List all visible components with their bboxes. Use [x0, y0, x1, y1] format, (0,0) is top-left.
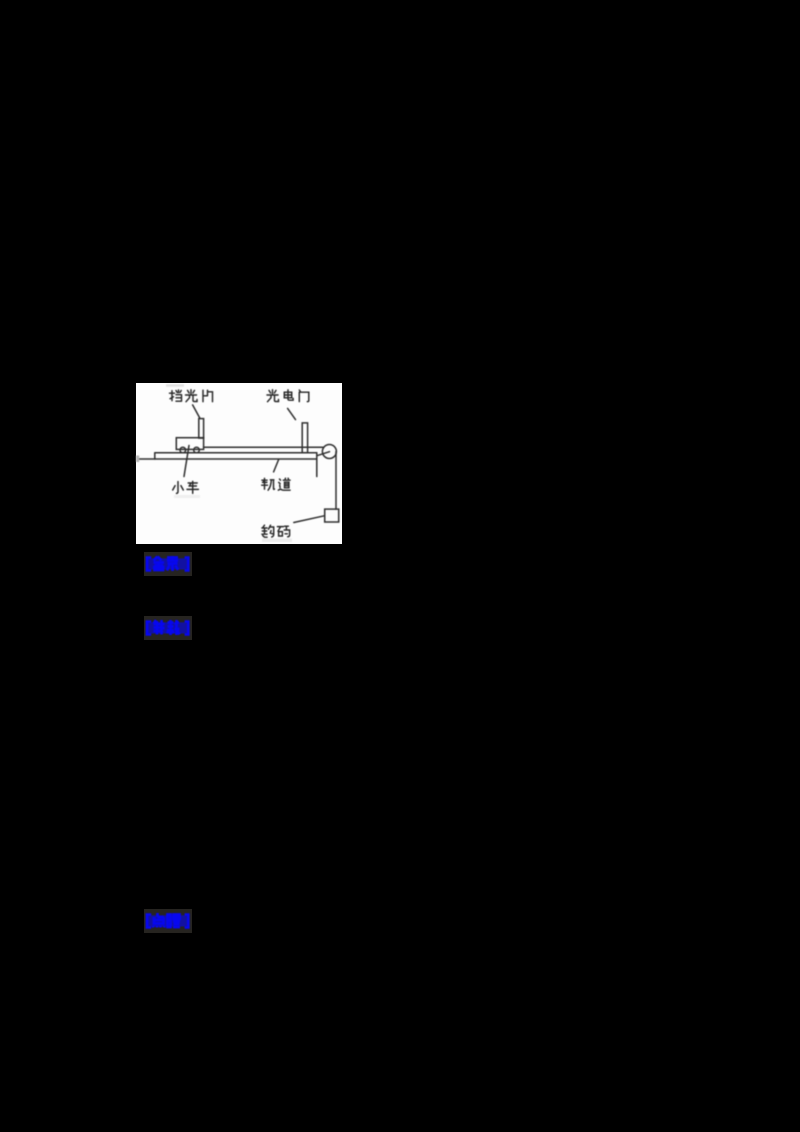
leader line from 挡光片 label to shutter strip	[193, 405, 200, 418]
jpeg smudge above shutter label	[166, 384, 184, 387]
glyph 轨 of label 轨道	[262, 478, 275, 490]
track (轨道) top line	[155, 452, 317, 454]
jpeg smudge gray nub at left edge of box	[136, 456, 139, 463]
leader line from 钩码 label to weight	[294, 516, 324, 523]
leader line from 小车 label to cart	[184, 446, 189, 477]
glyph 车 of label 小车	[187, 481, 198, 493]
pulley wheel	[322, 445, 336, 459]
figure: experiment diagram white box	[136, 383, 342, 544]
jpeg ghost under xiaoche label	[174, 495, 200, 498]
photogate post (光电门)	[302, 423, 307, 453]
table/base long line	[140, 458, 317, 460]
glyph 钩 of label 钩码	[262, 525, 274, 537]
glyph 码 of label 钩码	[277, 526, 289, 537]
cart wheel left	[180, 447, 186, 453]
glyph 光 of label 光电门	[267, 390, 279, 402]
glyph 光 of label 挡光片	[186, 390, 198, 402]
cart body (小车)	[176, 438, 203, 450]
cart wheel right	[194, 447, 200, 453]
glyph 片 of label 挡光片	[203, 390, 213, 402]
answer label 【答案】 blue	[144, 552, 192, 576]
weight hook mass (钩码) box	[325, 509, 339, 522]
glyph 小 of label 小车	[173, 482, 184, 494]
pulley bracket diagonal	[317, 452, 330, 456]
glyph 挡 of label 挡光片	[170, 390, 182, 401]
glyph 电 of label 光电门	[284, 390, 293, 400]
track right end vertical support	[316, 453, 318, 477]
analysis label 【解析】 blue	[144, 616, 192, 640]
leader line from 轨道 label to track	[274, 460, 279, 472]
leader line from 光电门 label to post	[288, 408, 296, 419]
glyph 道 of label 轨道	[278, 478, 290, 490]
track left end vertical	[154, 453, 156, 459]
string from cart to pulley	[204, 446, 323, 448]
glyph 门 of label 光电门	[299, 390, 309, 402]
string hanging from pulley	[335, 452, 337, 510]
tip label 【点睛】 blue	[144, 909, 192, 933]
shutter strip (挡光片) on cart	[199, 419, 204, 439]
jpeg ghost under gouma label	[262, 539, 292, 543]
